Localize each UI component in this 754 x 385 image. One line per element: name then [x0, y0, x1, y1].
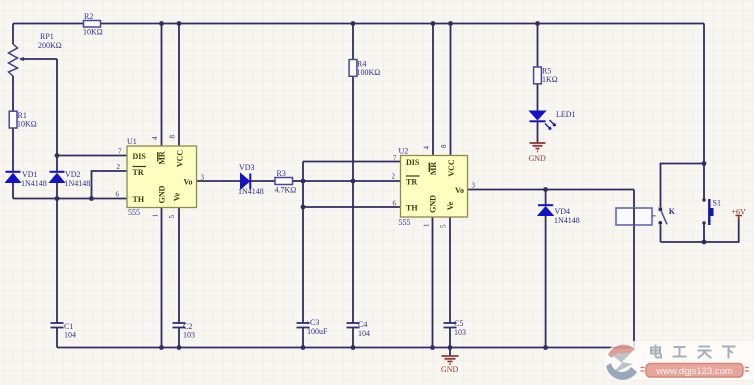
- svg-text:104: 104: [358, 329, 370, 338]
- node I: TR branch/TH wire: [89, 196, 94, 201]
- svg-text:7: 7: [393, 154, 397, 162]
- wire U1 pin1 GND to bottom rail: [161, 208, 163, 348]
- diode VD2: [50, 170, 91, 188]
- svg-text:DIS: DIS: [133, 152, 147, 161]
- svg-text:K: K: [669, 207, 676, 216]
- svg-text:R3: R3: [277, 169, 286, 178]
- wire right vertical from top rail: [703, 24, 705, 200]
- svg-text:TH: TH: [406, 204, 418, 213]
- relay contact K: [658, 207, 675, 225]
- node R: bottom rail/C3: [301, 345, 306, 350]
- relay coil K: [616, 208, 656, 225]
- svg-text:VD4: VD4: [555, 207, 571, 216]
- wire left vertical (V+ to RP1/R1/VD1): [12, 24, 14, 199]
- svg-text:GND: GND: [529, 154, 547, 163]
- watermark url box: [641, 364, 750, 378]
- node C: rail/R4: [351, 21, 356, 26]
- wire U1 Vo pin3 to VD3: [197, 180, 242, 182]
- wire U2 pin5 to C5: [449, 217, 451, 323]
- node M: Vo2/VD4: [543, 187, 548, 192]
- node P: bottom rail/U1 GND: [159, 345, 164, 350]
- node B: rail/U1 pin8: [177, 21, 182, 26]
- capacitor C2: [173, 322, 196, 340]
- resistor R5: [534, 67, 558, 85]
- node J: R3/DIS-TR column: [301, 179, 306, 184]
- node S: bottom rail/C4: [351, 345, 356, 350]
- capacitor C5: [444, 319, 467, 337]
- capacitor C3 (electrolytic): [297, 318, 329, 336]
- power port +6V: [732, 208, 747, 220]
- wire TR U2 pin2: [303, 180, 401, 182]
- wire U2 pin1 GND to bottom rail: [432, 217, 434, 348]
- wire bottom loop to +6V: [661, 217, 739, 242]
- wire U2 Vo pin3 to relay: [468, 189, 635, 191]
- svg-text:+C3: +C3: [306, 318, 320, 327]
- svg-text:1N4148: 1N4148: [554, 216, 580, 225]
- wire contact-K top loop: [661, 164, 705, 208]
- wire C2 to bottom rail: [178, 328, 180, 348]
- potentiometer RP1: [9, 32, 62, 76]
- node L: R4/TR wire: [351, 179, 356, 184]
- svg-text:VD3: VD3: [239, 163, 255, 172]
- svg-text:VCC: VCC: [447, 159, 456, 177]
- wire U1 pin5 to C2: [178, 208, 180, 324]
- op-amp U2 555 timer: [392, 144, 476, 228]
- svg-text:S1: S1: [713, 199, 721, 208]
- resistor R1: [9, 111, 37, 129]
- wire contact-K bottom lead: [660, 225, 662, 242]
- svg-text:TR: TR: [133, 168, 144, 177]
- node Q: bottom rail/C2: [177, 345, 182, 350]
- wire node column x=303 vertical: [302, 162, 304, 324]
- node U: bottom rail/C5-GND: [448, 345, 453, 350]
- wire U1 pin4 to rail: [161, 24, 163, 147]
- wire vertical x=57 from wiper through VD2 to C1: [56, 59, 58, 323]
- svg-text:5: 5: [440, 224, 448, 228]
- wire C4 to bottom rail: [352, 328, 354, 348]
- svg-text:C5: C5: [454, 319, 463, 328]
- wire LED to GND symbol: [537, 122, 539, 143]
- svg-text:1N4148: 1N4148: [65, 179, 91, 188]
- svg-text:1N4148: 1N4148: [238, 187, 264, 196]
- svg-text:4: 4: [423, 146, 431, 150]
- svg-text:3: 3: [472, 182, 476, 190]
- wire DIS U1 pin7: [57, 155, 127, 157]
- svg-text:U2: U2: [399, 147, 409, 156]
- wire U2 pin8 to rail: [450, 24, 452, 156]
- svg-text:8: 8: [440, 144, 448, 148]
- svg-text:3: 3: [201, 174, 205, 182]
- svg-text:LED1: LED1: [556, 110, 576, 119]
- svg-text:GND: GND: [429, 195, 438, 213]
- wire VD4 branch down: [545, 190, 547, 348]
- svg-text:2: 2: [117, 163, 121, 171]
- wire R5/LED branch from rail: [537, 24, 539, 111]
- svg-text:DIS: DIS: [406, 158, 420, 167]
- svg-text:MR: MR: [157, 151, 166, 165]
- wire TH U1 pin6 horizontal: [13, 198, 127, 200]
- node G: wiper column/DIS wire: [55, 153, 60, 158]
- op-amp U1 555 timer: [116, 135, 205, 219]
- svg-text:100KΩ: 100KΩ: [357, 68, 381, 77]
- svg-text:1KΩ: 1KΩ: [542, 75, 558, 84]
- ground symbol (bottom rail): [441, 348, 459, 375]
- svg-text:VCC: VCC: [175, 150, 184, 168]
- wire S1 bottom lead: [703, 223, 705, 242]
- svg-text:RP1: RP1: [40, 32, 54, 41]
- svg-text:10KΩ: 10KΩ: [17, 120, 37, 129]
- wire U1 pin8 to rail: [178, 24, 180, 147]
- svg-text:4: 4: [151, 136, 159, 140]
- node N: top loop/right vertical: [702, 161, 707, 166]
- svg-text:Ve: Ve: [172, 192, 181, 201]
- svg-text:6: 6: [393, 200, 397, 208]
- svg-text:1N4148: 1N4148: [21, 179, 47, 188]
- svg-text:VD1: VD1: [22, 170, 38, 179]
- svg-text:1: 1: [423, 223, 431, 227]
- svg-text:GND: GND: [441, 365, 459, 374]
- svg-text:103: 103: [183, 331, 195, 340]
- switch S1 (pushbutton): [702, 198, 721, 225]
- svg-text:GND: GND: [158, 185, 167, 203]
- node H: VD2/TH wire: [55, 196, 60, 201]
- capacitor C4: [347, 320, 371, 338]
- svg-text:Vo: Vo: [183, 178, 192, 187]
- wire U2 pin4 to rail: [432, 24, 434, 156]
- svg-text:6: 6: [116, 191, 120, 199]
- node A: rail/U1 pin4: [159, 21, 164, 26]
- wire top rail right segment: [101, 23, 705, 25]
- watermark backdrop: [604, 341, 754, 381]
- capacitor C1: [51, 322, 77, 340]
- wire TR U1 branch: [92, 171, 128, 199]
- resistor R3: [275, 169, 297, 195]
- watermark title dian-gong-tian-xia (vector glyphs): [651, 346, 735, 358]
- svg-text:200KΩ: 200KΩ: [38, 41, 62, 50]
- wire bottom rail: [57, 347, 634, 349]
- svg-text:www.dgjs123.com: www.dgjs123.com: [655, 366, 733, 377]
- svg-text:1: 1: [152, 214, 160, 218]
- wire top rail left segment: [13, 23, 84, 25]
- svg-text:5: 5: [168, 215, 176, 219]
- svg-text:100uF: 100uF: [307, 327, 328, 336]
- svg-text:TH: TH: [133, 195, 145, 204]
- wire C1 to bottom rail: [56, 328, 58, 348]
- wire TH U2 pin6: [303, 206, 401, 208]
- svg-text:104: 104: [64, 331, 76, 340]
- svg-text:103: 103: [454, 328, 466, 337]
- node E: rail/U2 pin8: [448, 21, 453, 26]
- diode VD1: [6, 170, 47, 188]
- LED LED1: [530, 110, 576, 130]
- svg-text:Ve: Ve: [446, 201, 455, 210]
- wire R3 to node column: [293, 180, 304, 182]
- node F: rail/R5: [535, 21, 540, 26]
- node D: rail/U2 pin4: [431, 21, 436, 26]
- node V: bottom rail/VD4: [543, 345, 548, 350]
- wire R4 vertical from rail through TR node to C4: [352, 24, 354, 324]
- wire relay coil to bottom rail: [633, 225, 635, 348]
- wire VD3 to R3: [251, 180, 276, 182]
- svg-text:R2: R2: [84, 12, 93, 21]
- svg-text:VD2: VD2: [65, 170, 81, 179]
- svg-text:+6V: +6V: [732, 208, 747, 217]
- wire RP1 wiper horizontal to node column: [20, 58, 57, 60]
- resistor R4: [349, 60, 380, 78]
- svg-text:4.7KΩ: 4.7KΩ: [275, 186, 297, 195]
- ground symbol (LED): [529, 143, 547, 163]
- watermark logo: [606, 345, 637, 380]
- svg-text:Vo: Vo: [455, 186, 464, 195]
- node T: bottom rail/U2 GND: [430, 345, 435, 350]
- wire relay coil feed down: [633, 190, 635, 209]
- svg-text:8: 8: [169, 135, 177, 139]
- node O: bottom loop/S1: [702, 240, 707, 245]
- wire C3 to bottom rail: [302, 328, 304, 348]
- svg-text:2: 2: [392, 173, 396, 181]
- svg-text:MR: MR: [429, 162, 438, 176]
- wire DIS U2 pin7: [303, 161, 401, 163]
- wire C5 to bottom rail: [449, 328, 451, 348]
- svg-text:555: 555: [128, 208, 140, 217]
- svg-text:C4: C4: [358, 320, 367, 329]
- node K1: column/TH wire U2: [301, 205, 306, 210]
- resistor R2: [83, 12, 103, 37]
- diode VD3: [238, 163, 264, 196]
- diode VD4: [538, 205, 580, 225]
- svg-text:U1: U1: [127, 137, 137, 146]
- svg-text:10KΩ: 10KΩ: [83, 28, 103, 37]
- svg-text:7: 7: [118, 148, 122, 156]
- svg-text:TR: TR: [406, 178, 417, 187]
- svg-text:555: 555: [399, 218, 411, 227]
